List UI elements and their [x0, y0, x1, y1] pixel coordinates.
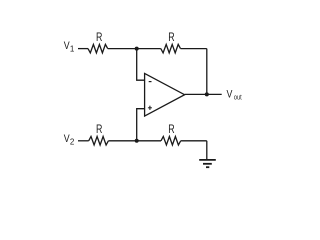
node V1 label [64, 40, 75, 53]
svg-text:R: R [96, 32, 102, 44]
svg-text:R: R [96, 124, 102, 136]
wire node A down to inverting input [137, 49, 145, 81]
wire R3 to node B and on to R4 [108, 140, 161, 142]
svg-text:out: out [234, 93, 242, 102]
output node junction dot [205, 92, 209, 96]
node V2 label [64, 133, 75, 146]
svg-text:R: R [168, 32, 174, 44]
svg-text:1: 1 [70, 44, 75, 53]
wire down to ground [206, 141, 208, 160]
node B junction dot [135, 139, 139, 143]
wire R4 to ground corner [181, 140, 207, 142]
ground [199, 159, 216, 161]
resistor R1 (top left) [88, 44, 108, 53]
resistor R3 (bottom left) [89, 137, 109, 146]
wire R1 to node A and on to R2 [108, 48, 161, 50]
svg-text:R: R [168, 124, 174, 136]
wire node B up to non-inverting input [137, 109, 145, 141]
svg-text:2: 2 [70, 138, 75, 147]
op-amp U1 [145, 73, 185, 116]
wire V2 to R3 [78, 140, 89, 142]
wire V1 to R1 [78, 48, 88, 50]
node A junction dot [135, 47, 139, 51]
resistor R2 (top right, feedback) [161, 44, 181, 53]
resistor R4 (bottom right) [161, 137, 181, 146]
op-amp non-inverting input plus sign [148, 107, 152, 109]
wire feedback vertical to output node [206, 49, 208, 95]
wire op-amp output [185, 93, 222, 95]
svg-text:V: V [227, 89, 233, 101]
op-amp inverting input minus sign [149, 81, 152, 83]
node Vout label [227, 89, 242, 102]
wire R2 to feedback corner [181, 48, 207, 50]
